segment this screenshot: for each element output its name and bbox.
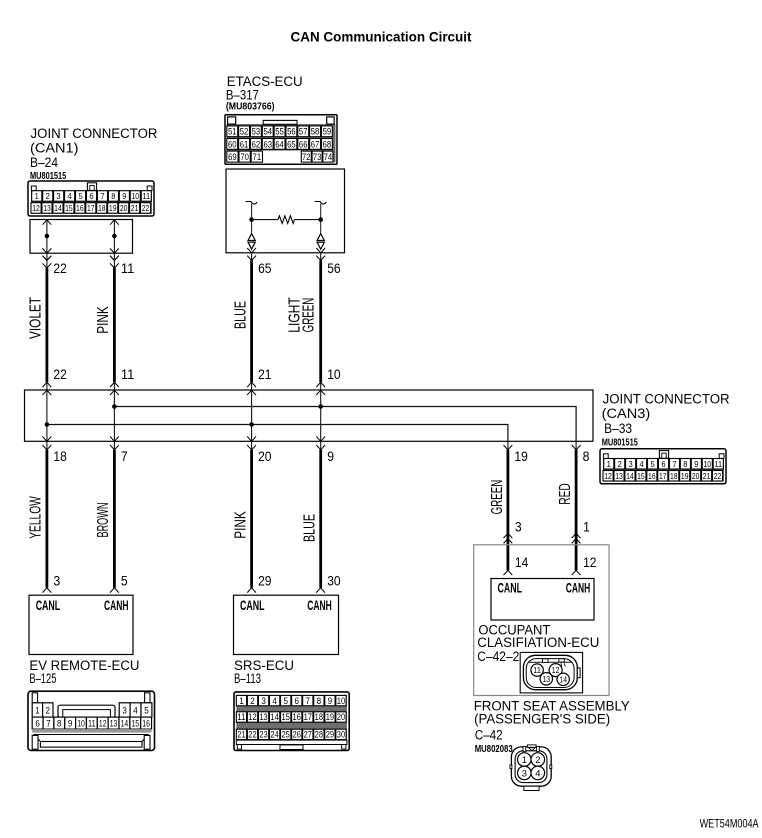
svg-text:12: 12 (32, 203, 40, 213)
svg-text:3: 3 (53, 572, 60, 588)
svg-text:PINK: PINK (95, 306, 112, 334)
wire pass-through B-33 (violet/yellow) (43, 390, 52, 441)
svg-text:13: 13 (615, 471, 623, 481)
ETACS internal CAN-H branch (pin 56) (315, 202, 326, 234)
svg-text:19: 19 (326, 712, 334, 722)
CAN bus low line (inside B-33) (45, 422, 508, 441)
svg-text:61: 61 (240, 139, 249, 149)
svg-text:13: 13 (110, 719, 118, 729)
junction box B-24 internal (30, 220, 133, 254)
svg-text:8: 8 (583, 448, 590, 464)
svg-text:22: 22 (714, 471, 722, 481)
svg-text:22: 22 (248, 730, 256, 740)
connector C-42 graphic (pins 1-4) (510, 745, 552, 791)
svg-text:B–125: B–125 (29, 671, 56, 686)
connector B-317 pin header (pins 51-74) (225, 115, 337, 164)
svg-text:(MU803766): (MU803766) (226, 102, 275, 113)
svg-text:1: 1 (583, 518, 590, 534)
svg-text:17: 17 (659, 471, 667, 481)
svg-text:CANH: CANH (566, 580, 591, 595)
wire B-24 internal left (pin 22) (43, 220, 52, 261)
svg-text:62: 62 (252, 139, 261, 149)
title CAN Communication Circuit (291, 29, 472, 45)
svg-text:BROWN: BROWN (95, 503, 112, 538)
svg-text:9: 9 (694, 459, 698, 469)
svg-text:10: 10 (77, 719, 85, 729)
svg-text:12: 12 (248, 712, 256, 722)
svg-text:24: 24 (270, 730, 278, 740)
svg-text:54: 54 (263, 127, 272, 137)
svg-text:B–113: B–113 (234, 671, 261, 686)
wire pass-through B-33 (blue/pink) (247, 390, 256, 441)
svg-text:11: 11 (121, 366, 135, 382)
svg-text:12: 12 (583, 554, 597, 570)
svg-text:20: 20 (258, 448, 272, 464)
svg-text:8: 8 (57, 719, 62, 729)
svg-text:52: 52 (240, 127, 249, 137)
svg-text:6: 6 (661, 459, 665, 469)
connector B-125 pin header (EV REMOTE-ECU, pins 1-16) (28, 691, 155, 750)
OCCUPANT CLASIFIATION-ECU box (491, 579, 594, 621)
svg-text:7: 7 (46, 719, 51, 729)
svg-text:4: 4 (68, 191, 72, 201)
svg-text:10: 10 (337, 696, 345, 706)
svg-text:12: 12 (99, 719, 107, 729)
svg-text:63: 63 (263, 139, 272, 149)
svg-text:4: 4 (133, 706, 138, 716)
svg-text:WET54M004A: WET54M004A (700, 817, 759, 831)
wire VIOLET : B-24 pin 22 to B-33 pin 22 (28, 256, 67, 390)
svg-text:70: 70 (240, 152, 249, 162)
svg-text:3: 3 (122, 706, 127, 716)
svg-text:9: 9 (68, 719, 73, 729)
svg-text:4: 4 (272, 696, 277, 706)
svg-text:3: 3 (522, 767, 527, 778)
svg-text:58: 58 (311, 127, 320, 137)
svg-text:8: 8 (683, 459, 687, 469)
wire BROWN : B-33 pin 7 to EV REMOTE-ECU pin 5 (95, 441, 128, 592)
svg-text:64: 64 (275, 139, 284, 149)
svg-text:28: 28 (315, 730, 323, 740)
svg-text:PINK: PINK (233, 511, 250, 539)
CAN bus high line (inside B-33) (112, 404, 576, 441)
svg-text:11: 11 (533, 666, 541, 675)
svg-text:73: 73 (313, 152, 322, 162)
svg-text:B–317: B–317 (226, 87, 259, 102)
svg-text:7: 7 (100, 191, 104, 201)
svg-text:17: 17 (304, 712, 312, 722)
svg-text:10: 10 (132, 191, 140, 201)
svg-text:6: 6 (35, 719, 40, 729)
svg-text:3: 3 (515, 518, 522, 534)
svg-text:CANH: CANH (104, 598, 129, 613)
joint connector (CAN3) B-33 label (602, 391, 730, 448)
svg-text:13: 13 (43, 203, 51, 213)
svg-text:CANL: CANL (240, 598, 265, 613)
svg-text:21: 21 (131, 203, 139, 213)
svg-text:5: 5 (78, 191, 82, 201)
svg-text:(PASSENGER'S SIDE): (PASSENGER'S SIDE) (474, 711, 610, 726)
SRS-ECU label (234, 658, 294, 686)
svg-text:2: 2 (250, 696, 255, 706)
svg-text:11: 11 (121, 260, 135, 276)
svg-text:14: 14 (626, 471, 634, 481)
svg-text:20: 20 (692, 471, 700, 481)
svg-text:C–42: C–42 (475, 728, 503, 743)
svg-text:1: 1 (607, 459, 611, 469)
svg-text:71: 71 (253, 152, 262, 162)
SRS-ECU box (234, 595, 339, 654)
svg-text:5: 5 (650, 459, 654, 469)
svg-text:19: 19 (514, 448, 528, 464)
svg-text:5: 5 (121, 572, 128, 588)
EV REMOTE-ECU box (29, 595, 133, 654)
svg-text:9: 9 (122, 191, 126, 201)
wire pass-through B-33 (pink/brown) (110, 390, 119, 441)
svg-text:2: 2 (535, 754, 540, 765)
svg-text:65: 65 (287, 139, 296, 149)
svg-text:5: 5 (283, 696, 288, 706)
svg-text:15: 15 (637, 471, 645, 481)
svg-text:66: 66 (299, 139, 308, 149)
wire PINK : B-24 pin 11 to B-33 pin 11 (95, 256, 134, 390)
svg-text:BLUE: BLUE (301, 514, 318, 542)
svg-text:2: 2 (618, 459, 622, 469)
svg-text:CAN Communication Circuit: CAN Communication Circuit (291, 29, 472, 45)
svg-text:13: 13 (259, 712, 267, 722)
svg-text:14: 14 (559, 675, 567, 684)
svg-text:JOINT CONNECTOR: JOINT CONNECTOR (603, 391, 730, 406)
svg-text:9: 9 (328, 696, 333, 706)
svg-text:22: 22 (53, 260, 67, 276)
svg-text:YELLOW: YELLOW (28, 496, 45, 539)
svg-text:MU801515: MU801515 (602, 436, 638, 448)
svg-text:18: 18 (53, 448, 67, 464)
svg-text:15: 15 (281, 712, 289, 722)
svg-text:BLUE: BLUE (233, 301, 250, 329)
svg-text:51: 51 (228, 127, 237, 137)
svg-text:14: 14 (515, 554, 529, 570)
svg-text:29: 29 (326, 730, 334, 740)
svg-text:C–42–2: C–42–2 (477, 649, 519, 664)
drawing number WET54M004A (700, 817, 759, 831)
wire BLUE : B-33 pin 9 to SRS-ECU pin 30 (301, 441, 340, 592)
svg-text:69: 69 (228, 152, 237, 162)
svg-text:7: 7 (672, 459, 676, 469)
svg-text:14: 14 (121, 719, 129, 729)
svg-text:2: 2 (46, 706, 51, 716)
svg-text:CANL: CANL (498, 580, 523, 595)
svg-text:19: 19 (681, 471, 689, 481)
svg-text:7: 7 (306, 696, 311, 706)
svg-text:RED: RED (557, 483, 574, 505)
svg-text:59: 59 (323, 127, 332, 137)
svg-text:18: 18 (670, 471, 678, 481)
svg-text:18: 18 (315, 712, 323, 722)
svg-text:20: 20 (120, 203, 128, 213)
wire PINK : B-33 pin 20 to SRS-ECU pin 29 (233, 441, 272, 592)
svg-text:21: 21 (237, 730, 245, 740)
svg-text:4: 4 (535, 767, 540, 778)
svg-text:CLASIFIATION-ECU: CLASIFIATION-ECU (477, 635, 599, 650)
svg-text:3: 3 (261, 696, 266, 706)
svg-text:3: 3 (629, 459, 633, 469)
connector B-33 pin header (pins 1-22) (600, 449, 726, 484)
svg-text:10: 10 (327, 366, 341, 382)
ETACS internal CAN-L branch (pin 65) (246, 202, 257, 234)
svg-text:14: 14 (54, 203, 62, 213)
svg-text:9: 9 (327, 448, 334, 464)
svg-text:CANL: CANL (36, 598, 60, 613)
joint connector (CAN1) B-24 label (30, 126, 158, 182)
wire pass-through B-33 (lgreen/blue) (316, 390, 325, 441)
svg-text:1: 1 (522, 754, 527, 765)
svg-text:16: 16 (293, 712, 301, 722)
svg-text:7: 7 (121, 448, 128, 464)
svg-text:15: 15 (65, 203, 73, 213)
svg-text:16: 16 (648, 471, 656, 481)
svg-text:11: 11 (88, 719, 96, 729)
svg-text:68: 68 (323, 139, 332, 149)
svg-text:60: 60 (228, 139, 237, 149)
svg-text:JOINT CONNECTOR: JOINT CONNECTOR (31, 126, 158, 141)
terminating resistor inside ETACS (252, 216, 321, 224)
svg-text:56: 56 (287, 127, 296, 137)
svg-text:21: 21 (703, 471, 711, 481)
svg-text:1: 1 (35, 191, 39, 201)
svg-text:30: 30 (337, 730, 345, 740)
svg-text:53: 53 (252, 127, 261, 137)
svg-text:12: 12 (552, 666, 560, 675)
svg-text:67: 67 (311, 139, 320, 149)
svg-text:22: 22 (53, 366, 67, 382)
svg-text:VIOLET: VIOLET (28, 297, 45, 339)
svg-text:6: 6 (89, 191, 93, 201)
svg-text:5: 5 (144, 706, 149, 716)
svg-text:16: 16 (76, 203, 84, 213)
svg-text:26: 26 (293, 730, 301, 740)
svg-text:16: 16 (142, 719, 150, 729)
svg-text:MU802083: MU802083 (475, 743, 513, 755)
svg-text:8: 8 (111, 191, 115, 201)
svg-text:GREEN: GREEN (301, 298, 318, 333)
svg-text:B–33: B–33 (604, 421, 632, 436)
svg-text:55: 55 (275, 127, 284, 137)
svg-text:12: 12 (604, 471, 612, 481)
svg-text:30: 30 (327, 572, 341, 588)
svg-text:72: 72 (302, 152, 311, 162)
svg-text:B–24: B–24 (30, 155, 58, 170)
svg-text:19: 19 (109, 203, 117, 213)
svg-text:57: 57 (299, 127, 308, 137)
wire BLUE : ETACS pin 65 to B-33 pin 21 (233, 248, 272, 390)
svg-text:17: 17 (87, 203, 95, 213)
svg-text:25: 25 (281, 730, 289, 740)
svg-text:4: 4 (640, 459, 644, 469)
EV REMOTE-ECU label (29, 658, 139, 686)
wire LIGHT GREEN : ETACS pin 56 to B-33 pin 10 (287, 248, 341, 390)
FRONT SEAT ASSEMBLY label (474, 698, 630, 755)
svg-text:15: 15 (131, 719, 139, 729)
svg-text:3: 3 (57, 191, 61, 201)
svg-text:56: 56 (327, 260, 341, 276)
connector mating symbol left (triangles) (248, 234, 255, 250)
svg-text:CANH: CANH (307, 598, 332, 613)
svg-text:11: 11 (714, 459, 722, 469)
svg-text:1: 1 (35, 706, 40, 716)
svg-text:27: 27 (304, 730, 312, 740)
svg-text:14: 14 (270, 712, 278, 722)
svg-text:65: 65 (258, 260, 272, 276)
wire GREEN : B-33 pin 19 to occupant ECU pin 14 via C-42 pin 3 (489, 441, 528, 575)
svg-text:GREEN: GREEN (489, 480, 506, 515)
svg-text:2: 2 (46, 191, 50, 201)
svg-text:11: 11 (142, 191, 150, 201)
svg-text:MU801515: MU801515 (30, 170, 66, 182)
connector B-113 pin header (SRS-ECU, pins 1-30) (234, 692, 349, 751)
svg-text:8: 8 (317, 696, 322, 706)
ETACS-ECU internal circuit box (226, 169, 345, 253)
OCCUPANT CLASIFIATION-ECU label (477, 622, 599, 664)
svg-text:1: 1 (239, 696, 244, 706)
connector mating symbol right (triangles) (317, 234, 324, 250)
svg-text:11: 11 (237, 712, 245, 722)
svg-text:74: 74 (324, 152, 333, 162)
joint connector (CAN3) B-33 junction box (25, 390, 594, 441)
wire RED : B-33 pin 8 to occupant ECU pin 12 via C-42 pin 1 (557, 441, 596, 575)
svg-text:6: 6 (295, 696, 300, 706)
connector B-24 pin header (pins 1-22) (28, 181, 154, 216)
wire YELLOW : B-33 pin 18 to EV REMOTE-ECU pin 3 (28, 441, 67, 592)
svg-text:20: 20 (337, 712, 345, 722)
svg-text:10: 10 (704, 459, 712, 469)
svg-text:23: 23 (259, 730, 267, 740)
ETACS-ECU label (226, 74, 303, 113)
connector C-42-2 graphic (pins 11-14) (520, 652, 582, 693)
svg-text:22: 22 (142, 203, 150, 213)
svg-text:(CAN1): (CAN1) (30, 141, 79, 156)
FRONT SEAT ASSEMBLY (passenger side) box (474, 545, 609, 696)
wire B-24 internal right (pin 11) (110, 220, 119, 261)
svg-text:29: 29 (258, 572, 272, 588)
svg-text:18: 18 (98, 203, 106, 213)
svg-text:13: 13 (543, 675, 551, 684)
svg-text:21: 21 (258, 366, 272, 382)
svg-text:(CAN3): (CAN3) (602, 406, 651, 421)
